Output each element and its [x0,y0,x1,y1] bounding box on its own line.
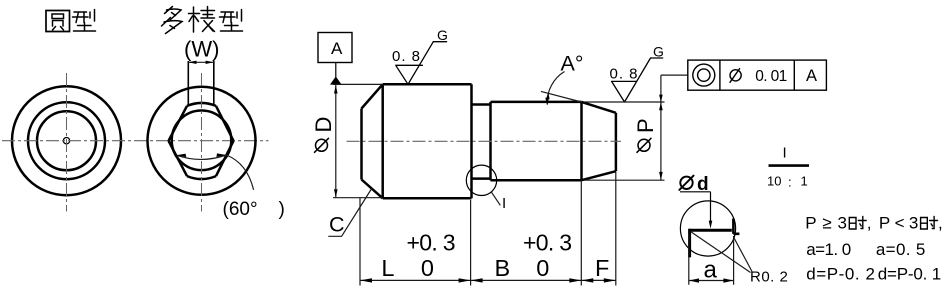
svg-text:B: B [495,255,511,281]
svg-text:0: 0 [536,255,549,281]
svg-text:): ) [279,199,285,220]
svg-text:D: D [311,117,336,133]
svg-text:I: I [783,145,787,162]
svg-text:I: I [502,195,506,212]
svg-text:10: 10 [767,174,781,189]
svg-text:0. 8: 0. 8 [610,66,639,83]
svg-text:L: L [381,255,394,281]
svg-text:P≥3: P≥3 [805,213,847,232]
svg-text:(W): (W) [184,37,219,62]
svg-text:F: F [595,255,609,281]
svg-text:0: 0 [421,255,434,281]
svg-text:A: A [806,67,817,85]
svg-text:a: a [704,257,718,284]
svg-text:d=P-0. 2: d=P-0. 2 [806,265,875,284]
svg-text:,: , [938,213,943,232]
svg-text:P: P [633,118,658,133]
svg-text:,: , [867,213,872,232]
svg-text:A°: A° [561,52,584,76]
svg-text:R0. 2: R0. 2 [750,269,788,286]
svg-text:P<3: P<3 [879,213,918,232]
svg-text:0. 01: 0. 01 [755,68,787,85]
svg-text:+0. 3: +0. 3 [407,229,456,255]
svg-text:a=0. 5: a=0. 5 [876,240,925,259]
svg-text:a=1. 0: a=1. 0 [806,240,851,259]
svg-text:C: C [329,213,345,237]
svg-text:0. 8: 0. 8 [392,48,421,65]
svg-text:(60°: (60° [223,199,258,220]
svg-text:G: G [437,27,448,43]
svg-text:A: A [331,39,343,58]
svg-text:1: 1 [801,174,808,189]
svg-text:G: G [653,43,664,59]
svg-text:d=P-0. 1: d=P-0. 1 [878,265,942,284]
svg-text:+0. 3: +0. 3 [523,229,572,255]
svg-text::: : [788,175,792,190]
